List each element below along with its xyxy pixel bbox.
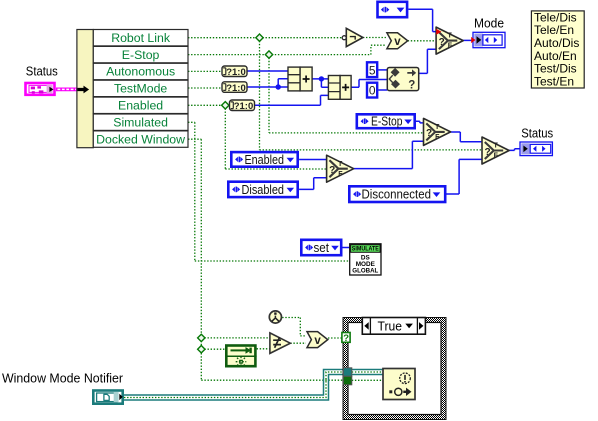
node Unbundle By Name	[77, 30, 188, 148]
node Send Notification	[383, 369, 415, 400]
svg-text:?: ?	[439, 37, 445, 48]
svg-text:T: T	[338, 161, 343, 168]
node compound arithmetic 2 (+)	[328, 76, 351, 100]
node Or gate 1	[387, 33, 408, 49]
tunnel notifier refnum	[343, 368, 352, 377]
node junction diamond E-Stop	[265, 51, 272, 58]
svg-text:?: ?	[485, 147, 491, 158]
enum constant E-Stop	[357, 114, 415, 128]
svg-text:E-Stop: E-Stop	[122, 48, 160, 62]
wire Select1 output to Select2 f	[354, 141, 424, 168]
wire compound2 output to InRangeCoerce x	[351, 80, 387, 88]
indicator Mode (enum)	[471, 32, 505, 47]
svg-text:?: ?	[426, 128, 432, 139]
wire Select2 output to Select3 t	[451, 132, 483, 142]
node junction dot blue 1	[276, 84, 281, 89]
wire notifier refnum teal lines	[124, 370, 343, 396]
free label mode list	[531, 10, 584, 88]
node Not Equal?	[270, 333, 290, 354]
svg-text:0: 0	[369, 84, 376, 98]
svg-text:Enabled: Enabled	[245, 153, 285, 167]
enum constant Enabled	[231, 152, 297, 167]
node junction dot blue 2	[319, 76, 324, 81]
svg-text:Docked Window: Docked Window	[96, 132, 185, 146]
case structure border	[343, 318, 446, 420]
wire Enabled branch down to Select1 s input	[225, 105, 326, 169]
wire Disabled enum to Select1 f	[299, 178, 327, 190]
svg-text:T: T	[448, 33, 453, 40]
wire notifier-status output to NotEqual bottom input	[257, 348, 270, 350]
constant 0	[367, 83, 377, 98]
wire Select0 output to Mode indicator	[463, 39, 473, 41]
node input arrow into unbundle	[78, 86, 90, 94]
wire Robot Link branch down to Select3 s input	[260, 38, 483, 150]
svg-text:F: F	[494, 153, 499, 160]
svg-text:?1:0: ?1:0	[234, 101, 254, 112]
wire NotEqual output to Or2	[290, 342, 306, 344]
svg-text:?1:0: ?1:0	[226, 83, 246, 94]
svg-text:TestMode: TestMode	[114, 82, 167, 96]
wire constant 0 to InRangeCoerce lower	[378, 89, 387, 91]
node compound arithmetic 1 (+)	[288, 67, 312, 91]
indicator Status (enum)	[520, 142, 552, 156]
enum constant Disabled	[228, 182, 297, 197]
control terminal Status (cluster)	[26, 83, 55, 95]
wire clock primitive output to Or2	[282, 318, 306, 336]
node In Range and Coerce	[387, 68, 418, 92]
wire Simulated boolean down to DS MODE GLOBAL	[188, 122, 350, 261]
svg-text:F: F	[435, 134, 440, 141]
wire Autonomous boolean to BoolTo01 n1	[188, 70, 222, 72]
node Boolean To (0,1) n1	[222, 66, 247, 78]
node Select 1 (Enabled/Disabled)	[327, 155, 354, 182]
svg-text:Enabled: Enabled	[118, 99, 163, 113]
wire set enum to DS MODE GLOBAL	[343, 247, 350, 249]
constant 5	[367, 62, 377, 77]
svg-text:Disconnected: Disconnected	[362, 188, 432, 202]
wire Status cluster pink dashed	[56, 88, 77, 92]
wire InRangeCoerce output to Select0 f	[419, 49, 436, 73]
node Boolean To (0,1) n2	[222, 82, 247, 94]
svg-text:set: set	[314, 241, 330, 255]
svg-text:F: F	[338, 171, 343, 178]
wire TestMode boolean to BoolTo01 n2	[188, 87, 222, 89]
svg-text:Disabled: Disabled	[242, 183, 285, 197]
wire BoolTo01 n2 output to compound1	[247, 79, 288, 87]
wire Docked Window branch to notifier-status node	[201, 348, 225, 350]
svg-text:Autonomous: Autonomous	[106, 65, 175, 79]
control terminal Window Mode Notifier	[93, 391, 123, 404]
node Not gate	[342, 28, 363, 46]
svg-text:Test/En: Test/En	[534, 74, 574, 88]
svg-text:GLOBAL: GLOBAL	[352, 268, 378, 275]
svg-text:Status: Status	[521, 125, 553, 140]
svg-text:SIMULATE: SIMULATE	[352, 246, 379, 253]
svg-text:5: 5	[369, 63, 376, 77]
svg-text:Robot Link: Robot Link	[111, 31, 171, 45]
wire Docked Window boolean down to green tunnel	[188, 139, 343, 380]
svg-text:?1:0: ?1:0	[226, 67, 246, 78]
svg-text:T: T	[493, 143, 498, 150]
case selector label True	[362, 318, 425, 335]
wire Docked Window branch to NotEqual top input	[201, 337, 270, 339]
ring constant (empty)	[378, 2, 408, 17]
wire Enabled enum to Select1 t	[299, 159, 327, 161]
wire BoolTo01 n1 output to compound1	[247, 70, 288, 72]
svg-text:Window Mode Notifier: Window Mode Notifier	[2, 370, 124, 385]
wire compound1 output to compound2	[312, 79, 328, 87]
node Select 0 (Mode)	[436, 27, 463, 54]
wire E-Stop enum to Select2 t	[416, 121, 424, 123]
node Select 2 (E-Stop)	[424, 118, 451, 145]
node junction diamond Robot Link	[256, 34, 263, 41]
svg-text:?: ?	[343, 333, 349, 344]
enum constant Disconnected	[349, 186, 445, 202]
enum constant set	[301, 240, 341, 255]
wire Disconnected enum to Select3 f	[447, 159, 483, 194]
wire E-Stop boolean from unbundle	[188, 45, 386, 54]
wire Enabled boolean to BoolTo01 n3	[188, 104, 230, 106]
wire ring constant to Select0 t	[408, 9, 436, 31]
node clock primitive	[269, 311, 281, 323]
wire Select3 output to Status indicator	[509, 149, 520, 151]
svg-text:?: ?	[329, 165, 335, 176]
wire constant 5 to InRangeCoerce upper	[378, 69, 387, 71]
wire green tunnel to Send Notification node	[352, 379, 383, 381]
node Or gate 2	[307, 332, 328, 348]
node junction diamond Docked Window lower	[198, 346, 205, 353]
svg-text:E-Stop: E-Stop	[371, 115, 403, 129]
svg-text:Status: Status	[26, 64, 58, 79]
tunnel boolean	[343, 376, 352, 385]
node junction diamond Enabled	[222, 102, 229, 109]
svg-text:v: v	[394, 36, 401, 48]
node DS MODE GLOBAL subVI	[350, 244, 381, 275]
svg-text:F: F	[448, 43, 453, 50]
node junction diamond Docked Window upper	[198, 334, 205, 341]
svg-text:?: ?	[408, 80, 415, 92]
svg-text:Mode: Mode	[474, 16, 504, 31]
tunnel case selector ?	[342, 333, 350, 344]
wire BoolTo01 n3 output to compound2	[255, 95, 329, 105]
wire Robot Link boolean from unbundle to Not gate	[188, 37, 342, 39]
wire Or1 output to Select0 s input	[408, 40, 436, 42]
wire notifier refnum green center	[124, 372, 343, 398]
svg-text:v: v	[314, 335, 321, 347]
node Get Notifier Status	[225, 346, 257, 368]
wire E-Stop branch down to Select2 s input	[269, 55, 424, 133]
svg-text:T: T	[435, 124, 440, 131]
wire Or2 output to case selector tunnel	[328, 337, 342, 339]
node Boolean To (0,1) n3	[230, 100, 255, 112]
svg-text:Simulated: Simulated	[113, 115, 168, 129]
node Select 3 (Status)	[482, 137, 509, 164]
svg-text:True: True	[378, 319, 403, 333]
wire Not output to Or input1	[363, 37, 386, 39]
